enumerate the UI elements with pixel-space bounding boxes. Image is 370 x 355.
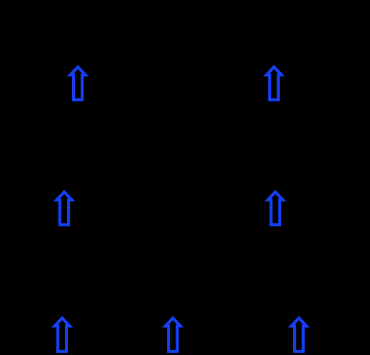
- arrow 3 (mid-left): [53, 190, 75, 227]
- arrow 4 (mid-right): [264, 190, 286, 227]
- arrow 1 (top-left): [67, 65, 89, 102]
- arrow 6 (bottom-middle): [162, 316, 184, 353]
- arrow 7 (bottom-right): [288, 316, 310, 353]
- arrow 5 (bottom-left): [51, 316, 73, 353]
- arrow 2 (top-right): [263, 65, 285, 102]
